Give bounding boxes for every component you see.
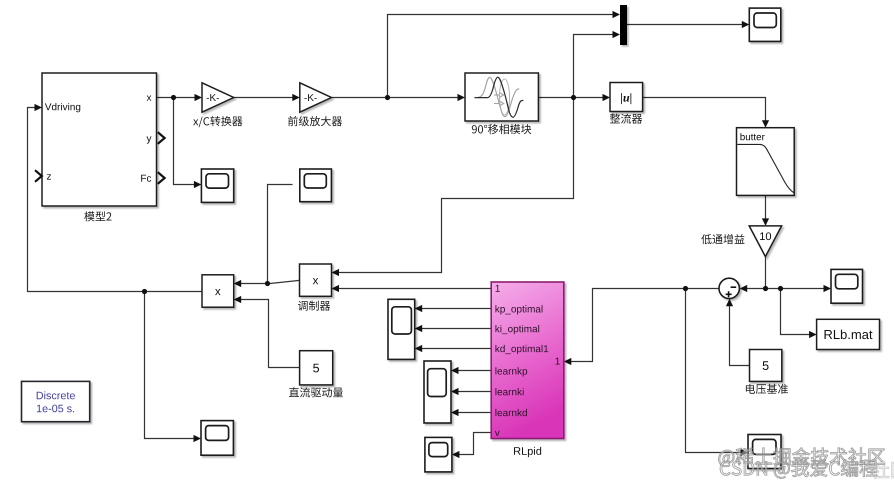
gain3 value 10 — [760, 232, 771, 240]
subsystem block RLpid — [491, 282, 564, 439]
wire branch down to scope5 — [145, 292, 194, 439]
label 整流器 — [610, 114, 642, 124]
gain1 value -K- — [207, 94, 219, 101]
gain block 前级放大器 — [300, 83, 332, 112]
wire abs to butter filter — [643, 98, 766, 121]
product symbol x — [313, 278, 318, 284]
constant block 5 直流驱动量 — [300, 351, 333, 385]
wire learnkp to scopeB — [458, 370, 491, 372]
abs value |u| — [621, 93, 631, 104]
wire learnkd to scopeB — [458, 412, 491, 414]
watermark line 2 — [720, 459, 877, 478]
unconnected port chevron Fc — [158, 172, 165, 184]
to-file block RLb.mat — [817, 319, 880, 349]
label 前级放大器 — [288, 116, 342, 126]
filter response curve — [737, 144, 793, 192]
wire v output to scopeC — [459, 433, 491, 455]
wire sum output to RLpid input — [571, 289, 719, 362]
wire branch up to mux input1 — [388, 15, 614, 98]
wire kp_optimal to scopeA — [422, 308, 491, 310]
product block 调制器 — [300, 264, 332, 296]
constant value 5 — [763, 361, 769, 370]
wire mux to scope3 — [627, 24, 742, 26]
constant block 5 电压基准 — [750, 350, 782, 382]
label 电压基准 — [746, 384, 788, 394]
scope block (error signal) — [831, 269, 863, 303]
wire branch up to scope2 — [268, 185, 293, 284]
unconnected port chevron z — [35, 170, 42, 182]
scope block (mux output) — [749, 8, 781, 41]
annotation block Discrete 1e-05 s. — [22, 381, 90, 421]
label 调制器 — [298, 301, 330, 311]
unconnected port chevron y — [158, 132, 165, 144]
scope block (x signal) — [201, 169, 233, 202]
wire constant 5 to product input2 — [241, 300, 300, 368]
wire modulator out to product input1 — [241, 280, 300, 283]
wire branch down to scope6 — [686, 289, 742, 453]
wire gain 10 down to junction — [765, 257, 767, 289]
wire branch x to scope1 — [174, 98, 195, 185]
scope block (feedback) — [201, 421, 233, 456]
label x/C转换器 — [193, 116, 242, 127]
wire model x output to gain1 — [157, 97, 195, 99]
port labels Vdriving z x y Fc — [45, 96, 152, 182]
scope block (modulator signal) — [300, 169, 332, 202]
wire gain1 to gain2 — [234, 97, 293, 99]
mux — [620, 5, 627, 45]
wire branch down to modulator input1 — [339, 98, 574, 273]
product symbol x — [215, 289, 220, 295]
gain block 低通增益 (10) — [749, 226, 781, 257]
phase shift block 90°移相模块 — [465, 73, 538, 121]
label 90°移相模块 — [472, 124, 531, 134]
gain block x/C转换器 — [202, 83, 234, 112]
wire RLpid out1 to modulator input2 — [339, 288, 492, 290]
wire branch down to RLb.mat — [781, 289, 810, 335]
wire gain2 to phase shift block — [330, 97, 457, 99]
sum block — [719, 278, 739, 298]
wire kd_optimal1 to scopeA — [422, 348, 491, 350]
scope block (v signal) — [425, 437, 452, 472]
constant value 5 — [313, 364, 319, 373]
wire butter to gain 10 — [765, 195, 767, 218]
RLpid port labels — [495, 285, 560, 436]
filter name butter — [740, 133, 764, 140]
wire junction left into sum — [747, 288, 766, 290]
scope block (kp ki kd optimal) — [388, 299, 415, 359]
annotation text Discrete 1e-05 s. — [37, 391, 75, 412]
value RLb.mat — [824, 330, 872, 340]
wire branch up to mux input2 — [574, 35, 614, 98]
wire product out feedback to Vdriving — [28, 108, 203, 292]
wire ki_optimal to scopeA — [422, 328, 491, 330]
sum minus sign — [731, 286, 737, 288]
label 模型2 — [84, 211, 111, 221]
label 直流驱动量 — [289, 387, 343, 397]
phase shift icon (sine curves) — [475, 77, 524, 117]
watermark fragment — [872, 461, 894, 478]
product block (drive modulation) — [202, 275, 234, 307]
abs block |u| 整流器 — [610, 83, 643, 112]
wire constant 5 up into sum — [730, 306, 750, 366]
label 低通增益 — [701, 234, 744, 244]
wire learnki to scopeB — [458, 391, 491, 393]
wire junction right to scope4 — [766, 288, 824, 290]
wire phase block to abs — [538, 97, 602, 99]
gain2 value -K- — [304, 94, 316, 101]
scope block (sum branch) — [748, 435, 781, 469]
sum plus sign — [726, 291, 732, 297]
scope block (learnkp learnki learnkd) — [424, 361, 451, 423]
watermark line 1 — [719, 448, 885, 467]
subsystem block 模型2 — [42, 73, 157, 206]
filter block butter — [737, 128, 795, 196]
label RLpid — [514, 447, 541, 457]
